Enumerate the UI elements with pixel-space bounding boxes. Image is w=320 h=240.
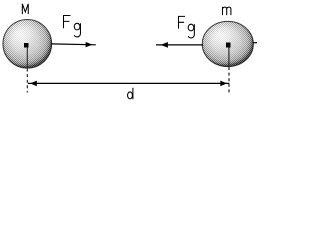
force arrow Fg on M (points right) xyxy=(52,42,96,47)
centerline inside m xyxy=(228,46,230,66)
label g subscript (right) xyxy=(188,24,194,38)
label g subscript (left) xyxy=(74,23,80,37)
label M xyxy=(22,4,28,14)
dashed centerline below M xyxy=(26,69,28,93)
label d xyxy=(128,88,133,99)
sphere M (large mass, left) xyxy=(3,19,52,68)
dashed centerline below m xyxy=(228,67,230,93)
distance arrow d (double-headed) xyxy=(28,81,230,87)
sphere m (small mass, right) xyxy=(202,21,253,66)
center dot of M xyxy=(24,43,29,48)
force arrow Fg on m (points left) xyxy=(156,42,203,48)
centerline inside M xyxy=(26,46,28,68)
label F of Fg (right) xyxy=(179,16,186,28)
label m xyxy=(223,7,231,15)
stub line at right image edge xyxy=(253,42,257,44)
center dot of m xyxy=(226,43,231,48)
label F of Fg (left) xyxy=(64,16,71,29)
